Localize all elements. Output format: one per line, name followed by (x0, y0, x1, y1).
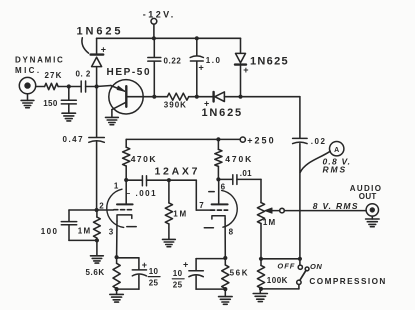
svg-text:-12V.: -12V. (143, 10, 176, 20)
svg-text:– .001: – .001 (126, 189, 157, 198)
svg-text:1N625: 1N625 (77, 26, 124, 38)
svg-text:56K: 56K (230, 268, 249, 277)
svg-text:6: 6 (221, 182, 226, 191)
svg-text:+: + (142, 260, 147, 270)
svg-text:3: 3 (109, 227, 114, 236)
svg-text:100K: 100K (267, 276, 288, 285)
svg-text:12AX7: 12AX7 (155, 165, 201, 177)
svg-text:OUT: OUT (359, 192, 377, 201)
svg-text:0.22: 0.22 (164, 56, 182, 65)
svg-text:ON: ON (310, 262, 322, 271)
svg-text:7: 7 (199, 201, 204, 210)
svg-text:RMS: RMS (323, 165, 348, 175)
svg-text:HEP-50: HEP-50 (107, 67, 152, 78)
svg-text:DYNAMIC: DYNAMIC (15, 56, 65, 65)
svg-text:8: 8 (229, 228, 234, 237)
svg-text:390K: 390K (164, 101, 187, 110)
svg-text:0.47: 0.47 (63, 135, 85, 144)
svg-text:2: 2 (99, 201, 104, 210)
svg-text:8 V. RMS: 8 V. RMS (313, 201, 359, 211)
svg-text:+: + (183, 259, 188, 269)
svg-text:OFF: OFF (277, 261, 295, 270)
svg-text:1N625: 1N625 (250, 56, 289, 68)
svg-text:10: 10 (149, 267, 159, 276)
svg-text:+250: +250 (247, 136, 275, 146)
svg-text:.01: .01 (240, 169, 252, 178)
svg-text:1M: 1M (263, 218, 277, 227)
svg-text:0. 2: 0. 2 (76, 69, 91, 78)
svg-text:10: 10 (173, 269, 183, 278)
svg-text:1M: 1M (173, 210, 188, 219)
svg-text:25: 25 (173, 281, 183, 290)
svg-text:.02: .02 (311, 137, 327, 146)
svg-text:MIC.: MIC. (15, 66, 42, 75)
svg-text:1N625: 1N625 (202, 107, 243, 119)
svg-text:+: + (199, 63, 204, 73)
svg-text:470K: 470K (225, 154, 253, 164)
svg-text:A: A (334, 147, 339, 154)
svg-text:150: 150 (43, 99, 58, 108)
svg-text:COMPRESSION: COMPRESSION (309, 277, 386, 286)
svg-text:25: 25 (149, 278, 159, 287)
svg-text:100: 100 (41, 227, 59, 236)
svg-text:1M: 1M (78, 227, 92, 236)
svg-text:+: + (243, 65, 248, 75)
svg-text:27K: 27K (45, 71, 63, 80)
svg-text:1: 1 (114, 182, 119, 191)
svg-text:+: + (101, 44, 106, 54)
svg-text:470K: 470K (131, 154, 157, 164)
svg-text:1.0: 1.0 (206, 56, 222, 65)
svg-text:5.6K: 5.6K (86, 268, 105, 277)
